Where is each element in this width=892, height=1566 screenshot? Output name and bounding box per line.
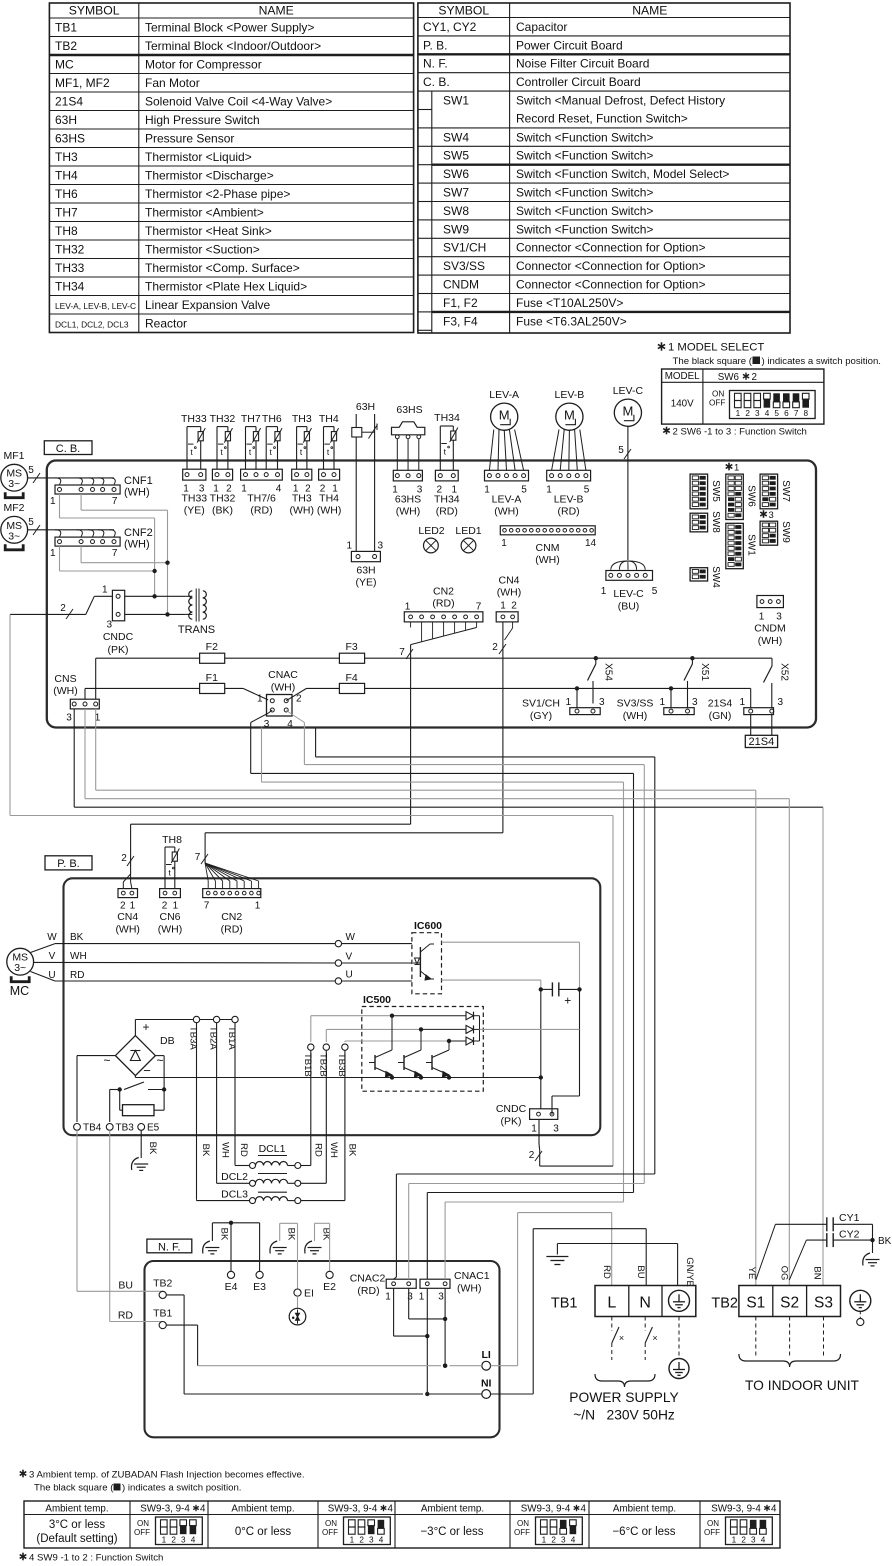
svg-text:(RD): (RD) <box>357 1285 379 1297</box>
wire CNAC1 pin1 down to NI line <box>425 1288 429 1396</box>
expansion valve motor LEV-B <box>555 389 585 430</box>
svg-text:Switch <Manual Defrost, Defect: Switch <Manual Defrost, Defect History <box>516 94 725 108</box>
label C.B. <box>44 441 92 455</box>
svg-text:ON: ON <box>325 1519 337 1528</box>
svg-text:F1, F2: F1, F2 <box>443 296 478 310</box>
cell -3C or less <box>420 1526 483 1538</box>
svg-text:63HS: 63HS <box>396 404 422 416</box>
connector CNF1 (WH) 7-pin <box>50 475 153 507</box>
svg-text:1: 1 <box>255 901 261 912</box>
svg-text:Switch <Function Switch>: Switch <Function Switch> <box>516 204 653 218</box>
svg-text:SW6: SW6 <box>746 485 757 507</box>
expansion valve motor LEV-C <box>613 385 644 426</box>
svg-text:BK: BK <box>147 1142 158 1155</box>
thermistor TH32 symbol <box>210 413 236 469</box>
svg-text:N. F.: N. F. <box>423 57 448 71</box>
svg-text:3: 3 <box>106 620 112 631</box>
cell 0C or less <box>235 1526 292 1538</box>
svg-text:Connector <Connection for Opti: Connector <Connection for Option> <box>516 278 705 292</box>
svg-text:5: 5 <box>28 465 34 476</box>
svg-text:(RD): (RD) <box>250 505 272 517</box>
svg-text:3: 3 <box>599 697 605 708</box>
svg-text:WH: WH <box>70 951 87 962</box>
svg-text:ON: ON <box>707 1519 719 1528</box>
svg-text:Motor for Compressor: Motor for Compressor <box>145 57 262 71</box>
svg-text:(WH): (WH) <box>53 685 78 697</box>
svg-text:7: 7 <box>204 901 210 912</box>
svg-text:X52: X52 <box>779 663 790 681</box>
cell -6C or less <box>612 1526 675 1538</box>
svg-text:7: 7 <box>794 409 799 418</box>
wire CN4 bundle with 2-slash <box>205 622 506 833</box>
svg-text:CNAC: CNAC <box>268 669 298 681</box>
svg-text:MF2: MF2 <box>4 502 25 514</box>
svg-text:2: 2 <box>162 901 168 912</box>
connector CNAC (WH) 4-pin <box>257 669 302 730</box>
svg-text:3: 3 <box>776 612 782 623</box>
svg-text:3 Ambient temp. of ZUBADAN Fla: 3 Ambient temp. of ZUBADAN Flash Injecti… <box>29 1470 305 1481</box>
label POWER SUPPLY <box>569 1390 678 1423</box>
wire minus bus to CNDC PB pin1 <box>539 989 543 1108</box>
label BK DCL left <box>200 1144 211 1157</box>
svg-text:4: 4 <box>771 1504 777 1515</box>
svg-text:3: 3 <box>407 1292 413 1303</box>
dip switch SW9 <box>760 521 791 545</box>
svg-text:SW1: SW1 <box>746 534 757 556</box>
svg-text:TB3B: TB3B <box>336 1053 347 1077</box>
svg-text:SW9: SW9 <box>780 521 791 543</box>
svg-text:U: U <box>346 970 353 981</box>
svg-text:(WH): (WH) <box>124 487 150 499</box>
svg-text:1: 1 <box>102 585 108 596</box>
svg-text:3: 3 <box>751 1536 756 1545</box>
svg-text:(WH): (WH) <box>317 505 342 517</box>
svg-text:TB1: TB1 <box>153 1308 172 1320</box>
terminal W on P.B. <box>335 932 412 947</box>
svg-text:WH: WH <box>220 1142 231 1158</box>
svg-text:5: 5 <box>521 485 527 496</box>
svg-text:EI: EI <box>304 1288 314 1300</box>
mark *1 above SW6 <box>726 463 740 474</box>
svg-text:Thermistor <Plate Hex Liquid>: Thermistor <Plate Hex Liquid> <box>145 279 307 293</box>
thermistor TH33 symbol <box>181 413 207 469</box>
svg-text:Connector <Connection for Opti: Connector <Connection for Option> <box>516 241 705 255</box>
label RD wire U <box>70 970 84 981</box>
wire CNAC1 pin3 down to LI line <box>443 1288 447 1368</box>
svg-text:Ambient temp.: Ambient temp. <box>421 1504 484 1515</box>
IGBT module IC600 <box>412 920 442 994</box>
svg-text:RD: RD <box>313 1143 324 1157</box>
wire LI to TB1 L loop <box>518 1213 612 1366</box>
reactor DCL3 <box>197 1050 345 1203</box>
label BU at TB1 N <box>635 1265 646 1278</box>
svg-text:CNDC: CNDC <box>103 631 134 643</box>
earth wire GN/YE to TB1 earth <box>557 1244 695 1287</box>
svg-text:SW8: SW8 <box>443 204 469 218</box>
svg-text:F2: F2 <box>206 641 218 653</box>
terminal TB2 on N.F. with BU wire <box>77 1130 172 1298</box>
svg-text:W: W <box>47 932 57 943</box>
svg-text:SW5: SW5 <box>443 149 469 163</box>
wire TB3B bus into IC500 <box>345 1039 451 1043</box>
connector CNF2 (WH) 7-pin <box>50 527 153 559</box>
svg-text:BK: BK <box>219 1228 230 1241</box>
svg-text:2: 2 <box>551 1536 556 1545</box>
svg-text:×: × <box>619 1333 624 1343</box>
svg-text:(BK): (BK) <box>212 505 233 517</box>
svg-text:RD: RD <box>601 1265 612 1279</box>
svg-text:OFF: OFF <box>704 1528 720 1537</box>
svg-text:LED2: LED2 <box>418 525 444 537</box>
svg-text:SW6: SW6 <box>443 167 469 181</box>
svg-text:2: 2 <box>121 853 127 864</box>
label WH DCL left <box>220 1142 231 1158</box>
svg-text:CN6: CN6 <box>159 911 180 923</box>
svg-text:CY1: CY1 <box>839 1212 860 1224</box>
symbol table right <box>418 3 790 333</box>
wire CNAC pin2 to F4 line <box>286 688 751 700</box>
svg-text:1: 1 <box>50 496 56 507</box>
ground chassis E4/E3 with BK <box>203 1221 260 1254</box>
dip switch SW5 <box>690 474 721 509</box>
thermistor TH8 symbol on P.B. <box>162 834 182 889</box>
svg-text:1: 1 <box>542 1536 547 1545</box>
svg-text:5: 5 <box>618 445 624 456</box>
svg-text:1: 1 <box>419 1292 425 1303</box>
svg-text:Solenoid Valve Coil <4-Way Val: Solenoid Valve Coil <4-Way Valve> <box>145 94 332 108</box>
wire CNAC2 pin1 to NI net <box>394 1288 430 1338</box>
svg-text:DB: DB <box>160 1035 175 1047</box>
svg-text:Switch <Function Switch, Model: Switch <Function Switch, Model Select> <box>516 167 729 181</box>
svg-text:TH33: TH33 <box>55 261 85 275</box>
terminal NI <box>427 1378 533 1399</box>
solenoid coil 21S4 box <box>745 715 777 749</box>
svg-text:SV1/CH: SV1/CH <box>443 241 486 255</box>
svg-text:BU: BU <box>118 1280 133 1292</box>
note *2 SW6-1 to 3 <box>663 427 807 438</box>
svg-text:TH32: TH32 <box>210 413 236 425</box>
svg-text:Pressure Sensor: Pressure Sensor <box>145 131 234 145</box>
wire CNAC pin3 to band line3 <box>251 710 634 1193</box>
svg-text:4: 4 <box>379 1536 384 1545</box>
svg-text:3: 3 <box>66 713 72 724</box>
dip switch SW9 -6C <box>704 1517 772 1545</box>
symbol table left <box>49 3 413 333</box>
svg-text:V: V <box>49 951 56 962</box>
connector CNAC2 (RD) <box>350 1273 416 1303</box>
svg-text:WH: WH <box>328 1142 339 1158</box>
svg-text:63HS: 63HS <box>395 494 421 506</box>
svg-text:3: 3 <box>438 1292 444 1303</box>
svg-text:1: 1 <box>130 901 136 912</box>
svg-text:BU: BU <box>635 1265 646 1278</box>
svg-text:LEV-B: LEV-B <box>554 494 584 506</box>
svg-text:(YE): (YE) <box>184 505 205 517</box>
svg-text:F1: F1 <box>206 672 218 684</box>
wire DC plus link IC500 to cap <box>480 1028 580 1030</box>
svg-text:GN/YE: GN/YE <box>684 1257 695 1287</box>
svg-text:TH4: TH4 <box>319 413 339 425</box>
label BN at S3 <box>812 1266 823 1279</box>
ground chassis EI with BK <box>270 1223 298 1254</box>
svg-text:SW6: SW6 <box>718 372 740 383</box>
svg-text:TB2: TB2 <box>55 39 77 53</box>
svg-text:(WH): (WH) <box>623 710 648 722</box>
IGBT module IC500 <box>362 994 484 1091</box>
svg-text:3~: 3~ <box>8 530 20 542</box>
svg-text:1: 1 <box>736 409 741 418</box>
connector CNDC (PK) on P.B. <box>496 1103 559 1135</box>
svg-text:TH33: TH33 <box>181 413 207 425</box>
connector SV3/SS (WH) <box>617 686 698 722</box>
connector 21S4 (GN) <box>708 688 784 722</box>
svg-text:S3: S3 <box>814 1295 833 1312</box>
svg-text:NAME: NAME <box>259 4 294 18</box>
compressor motor MC <box>7 948 34 998</box>
terminal TB1 on N.F. with RD wire <box>110 1130 173 1328</box>
svg-text:TO INDOOR UNIT: TO INDOOR UNIT <box>745 1378 860 1393</box>
svg-text:7: 7 <box>112 548 118 559</box>
svg-text:(PK): (PK) <box>108 644 129 656</box>
svg-text:L: L <box>607 1295 616 1312</box>
svg-text:1: 1 <box>257 694 263 705</box>
svg-text:8: 8 <box>804 409 809 418</box>
svg-text:BK: BK <box>347 1144 358 1157</box>
svg-text:SW7: SW7 <box>780 480 791 502</box>
svg-text:Ambient temp.: Ambient temp. <box>45 1504 108 1515</box>
svg-text:6: 6 <box>784 409 789 418</box>
thermistor TH4 symbol <box>319 413 339 469</box>
svg-text:IC600: IC600 <box>414 920 442 932</box>
IGBT transistors inside IC500 <box>369 1016 451 1080</box>
relay contact X51 <box>684 656 710 708</box>
svg-text:5: 5 <box>652 586 658 597</box>
svg-text:+: + <box>142 1020 149 1034</box>
svg-text:1: 1 <box>659 697 665 708</box>
wire LEV-C 5-wire bundle <box>618 426 631 560</box>
svg-text:CNDC: CNDC <box>496 1103 527 1115</box>
wire cap to CNDC PB pin3 <box>552 989 580 1114</box>
svg-text:YE: YE <box>746 1267 757 1280</box>
svg-text:(WH): (WH) <box>497 587 522 599</box>
svg-text:TH3: TH3 <box>55 150 78 164</box>
svg-text:SW9-3, 9-4: SW9-3, 9-4 <box>521 1504 571 1515</box>
svg-text:CNDM: CNDM <box>754 623 786 635</box>
svg-text:Capacitor: Capacitor <box>516 20 567 34</box>
label TO INDOOR UNIT <box>745 1378 860 1393</box>
svg-text:4: 4 <box>581 1504 587 1515</box>
svg-text:N: N <box>639 1295 651 1312</box>
breaker dashed below TB1 L <box>612 1317 624 1361</box>
svg-text:TB4: TB4 <box>83 1123 102 1134</box>
wire DB ac left to TB4 <box>77 1056 115 1122</box>
svg-text:LEV-A, LEV-B, LEV-C: LEV-A, LEV-B, LEV-C <box>55 301 136 311</box>
svg-text:2: 2 <box>745 409 750 418</box>
svg-text:3: 3 <box>692 697 698 708</box>
terminal E4 <box>225 1223 238 1293</box>
svg-text:F4: F4 <box>345 672 357 684</box>
svg-text:(WH): (WH) <box>290 505 315 517</box>
dip switch SW6 <box>726 474 757 519</box>
svg-text:Switch <Function Switch>: Switch <Function Switch> <box>516 222 653 236</box>
svg-text:3: 3 <box>369 1536 374 1545</box>
dashed lines to indoor unit <box>756 1317 824 1359</box>
svg-text:SW5: SW5 <box>710 480 721 502</box>
svg-text:0°C or less: 0°C or less <box>235 1526 292 1538</box>
svg-text:LEV-C: LEV-C <box>613 385 644 397</box>
label RD at TB1 L <box>601 1265 612 1279</box>
svg-text:21S4: 21S4 <box>749 736 775 748</box>
wire S3 feed vertical <box>822 807 824 1285</box>
svg-text:TB1: TB1 <box>55 20 77 34</box>
svg-text:RD: RD <box>118 1310 134 1322</box>
wire minus bus DB to IC500 <box>135 1076 540 1078</box>
svg-text:F3, F4: F3, F4 <box>443 314 478 328</box>
connector 63H (YE) <box>346 541 383 589</box>
svg-text:(WH): (WH) <box>271 682 296 694</box>
svg-text:TRANS: TRANS <box>178 624 215 636</box>
svg-text:RD: RD <box>238 1143 249 1157</box>
diodes inside IC500 <box>392 1012 480 1045</box>
svg-text:TH4: TH4 <box>55 168 78 182</box>
svg-text:4: 4 <box>765 409 770 418</box>
svg-text:7: 7 <box>476 602 482 613</box>
dip switch SW9 -3C <box>514 1517 582 1545</box>
svg-text:63H: 63H <box>356 565 375 577</box>
relay contact X52 <box>764 658 790 708</box>
svg-text:S2: S2 <box>780 1295 799 1312</box>
svg-text:1: 1 <box>484 485 490 496</box>
svg-text:CNF2: CNF2 <box>124 527 153 539</box>
wire CNS pin3 down to S3 feed line7 <box>74 709 823 807</box>
svg-text:Thermistor <Liquid>: Thermistor <Liquid> <box>145 150 252 164</box>
svg-text:1: 1 <box>405 602 411 613</box>
wire CNS pin2 down to S2 feed line6 <box>85 709 789 799</box>
connector CNDM (WH) <box>754 596 786 648</box>
svg-text:SW9-3, 9-4: SW9-3, 9-4 <box>328 1504 378 1515</box>
ground earth near TB1 <box>546 1257 568 1265</box>
svg-text:M: M <box>564 408 575 423</box>
resistor rush limit <box>120 1090 164 1116</box>
svg-text:(BU): (BU) <box>618 601 640 613</box>
svg-text:CNF1: CNF1 <box>124 475 153 487</box>
svg-text:63H: 63H <box>55 113 77 127</box>
svg-text:X51: X51 <box>699 663 710 681</box>
svg-text:(RD): (RD) <box>432 598 454 610</box>
svg-text:Thermistor <2-Phase pipe>: Thermistor <2-Phase pipe> <box>145 187 290 201</box>
label P.B. <box>45 856 92 870</box>
breaker dashed below TB1 N <box>645 1317 657 1361</box>
capacitor CY2 <box>789 1229 872 1280</box>
wire line 688 from CNS pin2 through F1 to CNAC pin1 <box>85 688 268 700</box>
fan motor MF1 <box>1 450 28 498</box>
connector CN2 (RD) 7-pin on C.B. <box>404 586 483 645</box>
svg-text:3: 3 <box>553 1124 559 1135</box>
transformer TRANS <box>178 589 215 637</box>
svg-text:OFF: OFF <box>322 1528 338 1537</box>
model select table <box>662 369 824 424</box>
svg-text:1: 1 <box>385 1292 391 1303</box>
svg-text:TH34: TH34 <box>55 279 85 293</box>
svg-text:F3: F3 <box>345 641 357 653</box>
svg-text:4 SW9 -1 to 2 : Function Switc: 4 SW9 -1 to 2 : Function Switch <box>29 1553 163 1564</box>
terminal TB1B <box>302 1044 314 1077</box>
svg-text:1 MODEL SELECT: 1 MODEL SELECT <box>668 342 764 354</box>
svg-text:POWER SUPPLY: POWER SUPPLY <box>569 1390 678 1405</box>
svg-text:4: 4 <box>571 1536 576 1545</box>
svg-text:TH33: TH33 <box>181 493 207 505</box>
diode bridge DB <box>103 1020 174 1078</box>
svg-text:SYMBOL: SYMBOL <box>69 4 120 18</box>
svg-text:LEV-C: LEV-C <box>613 588 644 600</box>
brace to indoor unit <box>739 1354 841 1367</box>
terminal TB2A <box>208 1016 220 1181</box>
svg-text:Thermistor <Heat Sink>: Thermistor <Heat Sink> <box>145 224 272 238</box>
terminal block TB1 L N earth <box>551 1286 696 1317</box>
wire DB plus to TBxA bus <box>135 1020 235 1036</box>
svg-text:SW9: SW9 <box>443 222 469 236</box>
svg-text:CN2: CN2 <box>433 586 454 598</box>
connector 63HS (WH) <box>392 470 423 517</box>
svg-text:OFF: OFF <box>709 398 725 407</box>
svg-text:(WH): (WH) <box>535 554 560 566</box>
wire CNDC pin1 to TRANS primary top <box>125 594 186 598</box>
wire MC phase U <box>31 970 339 981</box>
svg-text:5: 5 <box>584 485 590 496</box>
expansion valve motor LEV-A <box>489 389 519 430</box>
wire S2 feed vertical <box>788 799 790 1286</box>
svg-text:2: 2 <box>752 372 757 383</box>
thermistor TH6 symbol <box>262 413 282 469</box>
svg-text:TB3: TB3 <box>116 1123 135 1134</box>
mark *3 above SW9 <box>760 510 774 521</box>
fuse F1 <box>200 672 225 694</box>
svg-text:SV3/SS: SV3/SS <box>443 259 485 273</box>
dip switch SW4 <box>690 566 721 588</box>
wire CNS pin1 down to S1 feed line5 <box>96 709 756 790</box>
wire IC600 emitter to cap minus <box>442 980 541 989</box>
svg-text:C. B.: C. B. <box>56 443 80 455</box>
svg-text:2: 2 <box>171 1536 176 1545</box>
svg-text:The black square (: The black square ( <box>673 356 753 367</box>
svg-text:1: 1 <box>500 601 506 612</box>
svg-text:TH7: TH7 <box>241 413 261 425</box>
fuse F2 <box>200 641 225 663</box>
svg-text:TH32: TH32 <box>210 493 236 505</box>
svg-text:TB2B: TB2B <box>317 1053 328 1077</box>
svg-text:OFF: OFF <box>134 1528 150 1537</box>
wire CNDC pin3 to TRANS primary bottom <box>125 612 186 616</box>
svg-text:7: 7 <box>399 647 405 658</box>
svg-text:CNDM: CNDM <box>443 278 479 292</box>
label BK wire W <box>70 932 84 943</box>
svg-text:×: × <box>652 1333 657 1343</box>
svg-text:Thermistor <Discharge>: Thermistor <Discharge> <box>145 168 274 182</box>
svg-text:CNM: CNM <box>536 542 560 554</box>
svg-text:E4: E4 <box>225 1281 238 1293</box>
svg-text:M: M <box>622 404 633 419</box>
svg-text:(WH): (WH) <box>457 1283 482 1295</box>
capacitor smoothing with plus <box>539 982 582 1007</box>
connector TH7/6 (RD) 4-pin <box>241 469 283 516</box>
svg-text:TB1: TB1 <box>551 1296 578 1312</box>
svg-text:CY2: CY2 <box>839 1229 860 1241</box>
svg-text:SW7: SW7 <box>443 186 469 200</box>
svg-text:X54: X54 <box>603 663 614 681</box>
connector TH33 (YE) <box>181 469 207 516</box>
svg-text:3: 3 <box>264 719 270 730</box>
svg-text:TH4: TH4 <box>319 493 339 505</box>
